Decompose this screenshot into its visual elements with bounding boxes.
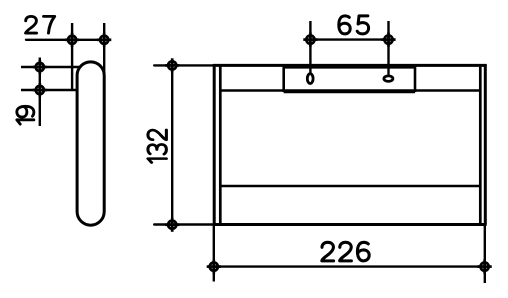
front view: mounting plate right edge [414, 67, 417, 93]
side view: wall plate back edge + extension line to 27 dim [71, 23, 73, 90]
dimension marker 132 bottom [165, 218, 179, 232]
dimension text 132 (rotated) [148, 130, 166, 163]
dimension line 226 [214, 265, 485, 267]
dimension line 132 [171, 65, 173, 225]
extension line 65 right (down to right slot) [387, 21, 389, 75]
front view: frame bottom edge [213, 223, 487, 226]
dimension line 19 [39, 58, 41, 127]
side view: plate bottom edge + extension line to 19 dim [21, 89, 78, 91]
front view: frame inner right edge [479, 67, 482, 224]
dimension marker 27 right [97, 33, 111, 47]
front view: frame outer right edge [484, 64, 487, 224]
dimension text 65 [339, 16, 369, 34]
side view: bar profile (stadium outline) [77, 62, 104, 225]
dimension marker 132 top [165, 58, 179, 72]
dimension line 65 [310, 38, 388, 40]
front view: band inner top line [220, 89, 480, 92]
front view: frame inner left edge [219, 67, 222, 224]
front view: right extension line down to 226 dim [484, 225, 486, 284]
dimension text 226 [322, 242, 369, 261]
dimension marker 226 right [478, 260, 492, 274]
side view: extension line above bar front edge [103, 23, 105, 76]
front view: bottom extension line to 132 dim [154, 223, 214, 225]
front view: frame outer left edge [213, 64, 216, 224]
dimension marker 65 right [381, 33, 395, 47]
front view: mounting plate left edge [282, 67, 285, 93]
front view: right screw slot (horizontal oval) [384, 76, 393, 82]
dimension marker 65 left [303, 33, 317, 47]
extension line 65 left (down to left slot) [309, 21, 311, 73]
front view: left screw slot (vertical oval) [307, 74, 313, 84]
dimension marker 27 left [65, 33, 79, 47]
front view: band inner bottom line [220, 185, 480, 188]
dimension line 27 [26, 39, 104, 41]
dimension text 19 (rotated) [17, 106, 34, 124]
front view: frame top edge [213, 64, 487, 67]
front view: top extension line to 132 dim [154, 64, 214, 66]
front view: left extension line down to 226 dim [213, 225, 215, 282]
front view: mounting plate bottom edge [284, 91, 415, 94]
dimension text 27 [26, 16, 55, 33]
dimension marker 226 left [207, 260, 221, 274]
front view: mounting plate top edge [284, 66, 415, 68]
side view: plate top edge + extension line to 19 dim [21, 66, 80, 68]
dimension marker 19 bottom [33, 83, 47, 97]
dimension marker 19 top [33, 60, 47, 74]
